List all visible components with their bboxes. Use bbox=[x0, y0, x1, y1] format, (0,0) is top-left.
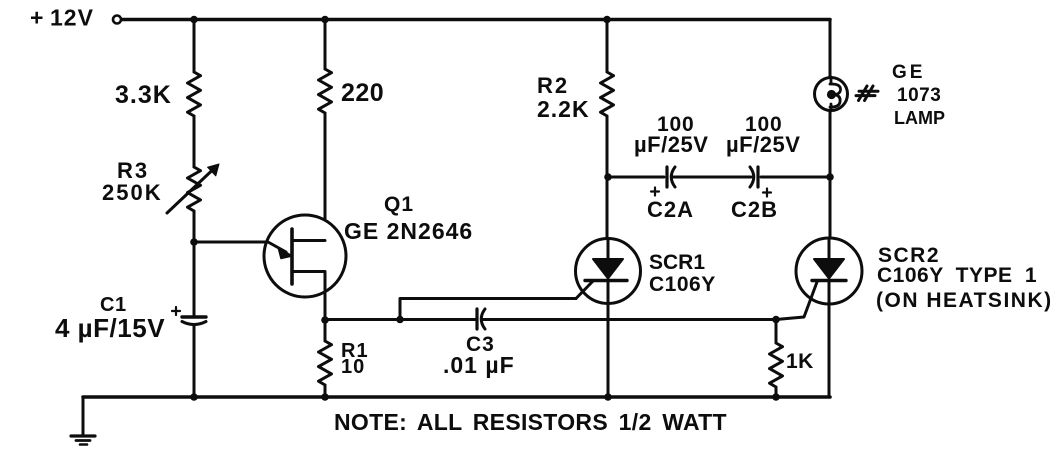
wire C1 to bottom rail bbox=[193, 325, 196, 397]
wire R1 top bbox=[324, 320, 327, 341]
junction cap row right bbox=[826, 173, 834, 181]
svg-text:Q1: Q1 bbox=[384, 193, 414, 216]
resistor 3.3K bbox=[188, 72, 201, 116]
svg-text:GE: GE bbox=[892, 62, 925, 83]
resistor R3 250K (variable) bbox=[188, 167, 201, 211]
SCR1 gate diagonal bbox=[576, 281, 593, 299]
C1 plus sign bbox=[172, 307, 180, 315]
junction top rail at 220 bbox=[321, 16, 329, 24]
wire 220 branch top bbox=[324, 20, 327, 70]
svg-text:4 µF/15V: 4 µF/15V bbox=[55, 313, 165, 343]
R3 arrow bbox=[167, 170, 213, 214]
svg-text:250K: 250K bbox=[102, 180, 163, 205]
SCR1 circle bbox=[576, 239, 641, 304]
svg-text:1K: 1K bbox=[786, 350, 814, 373]
wire R1 bottom bbox=[324, 385, 327, 397]
wire emitter of Q1 bbox=[194, 241, 268, 244]
C2A plus sign bbox=[651, 188, 659, 196]
svg-text:3.3K: 3.3K bbox=[115, 81, 172, 109]
svg-text:10: 10 bbox=[341, 356, 365, 378]
svg-text:.01 µF: .01 µF bbox=[443, 352, 515, 378]
svg-text:LAMP: LAMP bbox=[894, 108, 945, 128]
junction top rail at R2 bbox=[603, 16, 611, 24]
svg-text:C106Y: C106Y bbox=[649, 273, 716, 296]
resistor 220 bbox=[319, 69, 332, 113]
junction cap row left bbox=[604, 173, 612, 181]
svg-text:(ON HEATSINK): (ON HEATSINK) bbox=[876, 289, 1053, 312]
SCR1 cathode wire down bbox=[607, 281, 610, 398]
junction R1 bottom bbox=[321, 393, 329, 401]
wire left branch upper bbox=[193, 20, 196, 73]
junction SCR2 gate 1K bbox=[772, 316, 780, 324]
wire C3 to SCR2 gate node bbox=[483, 318, 776, 321]
wire 220 to Q1 bbox=[324, 113, 327, 241]
svg-text:µF/25V: µF/25V bbox=[634, 132, 708, 157]
wire bottom rail bbox=[83, 395, 830, 399]
SCR2 gate wire bbox=[776, 282, 817, 320]
SCR1 triangle bbox=[593, 259, 623, 279]
SCR1 anode line bbox=[607, 239, 610, 259]
svg-text:NOTE: ALL RESISTORS 1/2 WA: NOTE: ALL RESISTORS 1/2 WATT bbox=[334, 409, 727, 435]
lamp GE 1073 bbox=[815, 78, 848, 111]
svg-text:220: 220 bbox=[341, 79, 384, 107]
junction SCR1 gate tap bbox=[396, 316, 404, 324]
transistor Q1 circle bbox=[264, 215, 346, 297]
SCR2 triangle bbox=[814, 259, 844, 279]
resistor 1K bbox=[770, 320, 783, 397]
svg-text:C2B: C2B bbox=[731, 197, 778, 222]
svg-text:2.2K: 2.2K bbox=[537, 96, 590, 122]
Q1 base bar bbox=[290, 229, 294, 284]
terminal +12V input bbox=[113, 16, 121, 24]
SCR2 anode line bbox=[828, 238, 831, 259]
wire capacitor row C2A C2B bbox=[608, 176, 830, 179]
junction SCR1 cathode bottom bbox=[604, 393, 612, 401]
wire top rail bbox=[122, 18, 830, 22]
wire gate row to C3 bbox=[325, 318, 476, 321]
SCR1 cathode bar bbox=[585, 279, 627, 282]
resistor R1 bbox=[319, 341, 332, 385]
Q1 base-one lead bbox=[292, 272, 325, 321]
wire SCR1 gate jog bbox=[400, 299, 576, 320]
Q1 emitter with arrow bbox=[268, 242, 286, 252]
SCR2 cathode bar bbox=[812, 279, 846, 282]
junction emitter node bbox=[190, 238, 198, 246]
capacitor C2B plates bbox=[756, 167, 759, 187]
svg-text:1073: 1073 bbox=[897, 85, 941, 106]
svg-text:µF/25V: µF/25V bbox=[726, 132, 800, 157]
SCR2 cathode wire down bbox=[828, 281, 831, 398]
svg-text:+: + bbox=[30, 5, 43, 31]
junction Q1 base-one R1 bbox=[321, 316, 329, 324]
lamp filament bbox=[830, 77, 833, 111]
wire between 3.3K and R3 bbox=[193, 116, 196, 167]
svg-text:GE 2N2646: GE 2N2646 bbox=[344, 218, 473, 244]
resistor R2 bbox=[601, 20, 614, 241]
svg-text:R2: R2 bbox=[537, 73, 569, 98]
svg-text:SCR1: SCR1 bbox=[649, 251, 705, 274]
junction C1 bottom bbox=[190, 393, 198, 401]
svg-text:C2A: C2A bbox=[647, 197, 694, 222]
junction top rail at 3.3K bbox=[190, 16, 198, 24]
SCR2 circle bbox=[796, 238, 862, 304]
svg-text:C106Y TYPE 1: C106Y TYPE 1 bbox=[877, 264, 1037, 287]
C2B plus sign bbox=[763, 189, 771, 197]
svg-text:12V: 12V bbox=[50, 5, 94, 31]
capacitor C3 plates bbox=[475, 309, 478, 329]
Q1 base-two lead bbox=[292, 239, 325, 242]
capacitor C2A plates bbox=[665, 167, 668, 187]
wire right branch / lamp drop bbox=[829, 20, 832, 240]
capacitor C1 plates bbox=[182, 315, 206, 318]
number-sign symbol bbox=[856, 86, 878, 101]
ground wire drop bbox=[82, 397, 85, 436]
wire R3 to C1 bbox=[193, 211, 196, 317]
ground symbol bbox=[71, 434, 95, 437]
junction 1K bottom bbox=[772, 393, 780, 401]
